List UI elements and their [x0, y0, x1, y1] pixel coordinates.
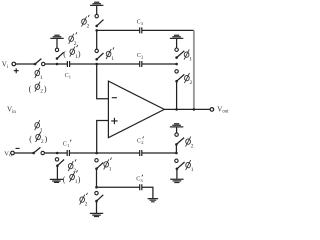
svg-text:1: 1 — [109, 167, 112, 173]
label (phi2) (S7 alt) — [29, 135, 47, 145]
ground (below C3') — [148, 199, 159, 202]
label Vi — [2, 60, 9, 69]
svg-text:1: 1 — [69, 75, 71, 80]
label C2 — [137, 53, 143, 59]
label + polarity — [14, 68, 19, 73]
wire Vi to switch S1 — [16, 63, 35, 65]
svg-text:2: 2 — [40, 89, 43, 95]
wire S7 to node A' — [44, 152, 67, 154]
svg-text:): ) — [78, 175, 81, 184]
svg-text:1: 1 — [67, 143, 69, 148]
label phi2' (S10) — [80, 193, 88, 205]
capacitor C3 — [140, 27, 142, 33]
svg-text:2: 2 — [141, 54, 143, 59]
label - polarity — [16, 147, 20, 149]
ground (top of column D) — [170, 35, 183, 38]
terminal Vout — [210, 108, 214, 112]
label C1 — [65, 73, 71, 79]
node output-D junction — [175, 108, 178, 111]
label phi2 (S11) — [186, 137, 191, 147]
svg-text:(: ( — [63, 175, 66, 184]
ground (top of column B) — [90, 2, 103, 5]
wire S1 to node A — [45, 63, 68, 65]
node A — [56, 63, 59, 66]
svg-text:2: 2 — [141, 140, 143, 145]
svg-text:1: 1 — [111, 56, 114, 62]
switch S5 phi1 (node D to ground) — [176, 39, 178, 48]
switch S1 phi1 — [34, 63, 37, 66]
wire S9 to node C' — [96, 169, 98, 188]
label C3' — [136, 177, 143, 183]
label (phi1') (S8 alt) — [63, 175, 81, 185]
node C — [95, 29, 98, 32]
wire node C to feedback corner (C3 line) — [97, 29, 140, 31]
switch S10 phi2' (node C' to bottom ground) — [95, 191, 98, 194]
wire S6 down to output line — [176, 81, 178, 109]
ground (bottom of column B') — [90, 213, 103, 216]
node C' — [95, 186, 98, 189]
capacitor C3' — [140, 184, 142, 190]
label C1' — [63, 141, 69, 147]
node D' — [175, 152, 178, 155]
label phi1' (S9) — [104, 158, 112, 170]
wire C2 to node D — [142, 63, 177, 65]
wire feedback vertical — [193, 30, 195, 109]
capacitor C2 — [140, 61, 142, 67]
op-amp U1 — [108, 81, 164, 138]
switch S9 phi1' (node B' down) — [95, 159, 98, 162]
svg-text:2: 2 — [190, 80, 193, 86]
capacitor C1' — [67, 150, 69, 156]
svg-text:1: 1 — [40, 75, 43, 81]
svg-text:1: 1 — [75, 179, 78, 185]
node A' — [56, 152, 59, 155]
wire C2' line: node B' to node D' — [97, 152, 140, 154]
label + input — [111, 118, 117, 124]
svg-text:): ) — [78, 50, 81, 59]
label phi2' (S2) — [69, 32, 77, 44]
label Vout — [217, 105, 229, 114]
switch S6 phi2 (node D to output) — [175, 70, 178, 73]
switch S3 phi1' (node B up) — [95, 58, 98, 61]
wire node C' to C3' — [97, 186, 140, 188]
svg-text:2: 2 — [87, 24, 90, 30]
label phi1 (S1) — [35, 68, 40, 78]
svg-text:2: 2 — [41, 139, 44, 145]
wire C1 to node B — [70, 63, 97, 65]
label - input — [112, 97, 117, 99]
switch S12 phi1 (node D' to lower ground) — [175, 159, 178, 162]
wire node B' up to + input — [97, 121, 109, 154]
label phi1 (S7) — [35, 120, 40, 130]
switch S4 phi2' (node C to top ground) — [95, 25, 98, 28]
wire node B down to - input — [97, 64, 109, 99]
label (phi2) (S1 alt) — [29, 84, 47, 94]
label C3 — [137, 20, 144, 26]
ground (bottom of column D') — [170, 179, 183, 182]
svg-text:2: 2 — [191, 144, 194, 150]
wire output line — [164, 108, 210, 110]
wire Vo to switch S7 — [14, 152, 33, 154]
wire C2' to node D' — [142, 152, 177, 154]
label phi1 (S12) — [186, 160, 191, 170]
svg-text:1: 1 — [189, 57, 192, 63]
svg-text:(: ( — [29, 135, 32, 144]
node D — [175, 63, 178, 66]
svg-text:2: 2 — [85, 202, 88, 208]
capacitor C2' — [140, 150, 142, 156]
label (phi1') (S2 alt) — [63, 50, 81, 60]
wire C3' to corner and down — [142, 187, 153, 198]
svg-text:): ) — [44, 84, 47, 93]
node B (summing node) — [95, 63, 98, 66]
label C2' — [137, 138, 143, 144]
wire C3 to corner — [142, 29, 194, 31]
node output-feedback junction — [193, 108, 196, 111]
switch S8 at node A' (to bottom ground) — [55, 158, 58, 161]
switch S2 at node A (to top ground) — [56, 57, 59, 60]
ground (above node A) — [50, 35, 63, 38]
label Vo — [4, 150, 13, 157]
wire C1' to node B' — [69, 152, 96, 154]
ground (below node A') — [50, 179, 63, 182]
svg-text:1: 1 — [75, 54, 78, 60]
svg-text:2: 2 — [74, 41, 77, 47]
svg-text:(: ( — [29, 84, 32, 93]
svg-text:(: ( — [63, 50, 66, 59]
wire node B to C2 — [97, 63, 140, 65]
label phi2' (S4) — [82, 15, 90, 27]
svg-text:1: 1 — [191, 167, 194, 173]
svg-text:in: in — [12, 110, 16, 115]
wire S3 to node C — [96, 30, 98, 49]
label phi2 (S6) — [184, 73, 189, 83]
label phi1' (S3) — [106, 47, 114, 59]
terminal Vo — [11, 151, 15, 155]
svg-text:): ) — [45, 135, 48, 144]
terminal Vi — [12, 62, 16, 66]
capacitor C1 — [67, 61, 69, 67]
ground (top of column D') — [170, 124, 183, 127]
switch S7 phi1 — [32, 152, 35, 155]
switch S11 phi2 (node D' to upper ground) — [176, 127, 178, 133]
label phi2' (S8) — [68, 159, 76, 171]
label Vin — [7, 105, 16, 115]
node B' — [95, 152, 98, 155]
label phi1 (S5) — [184, 50, 189, 60]
svg-text:out: out — [222, 110, 229, 115]
